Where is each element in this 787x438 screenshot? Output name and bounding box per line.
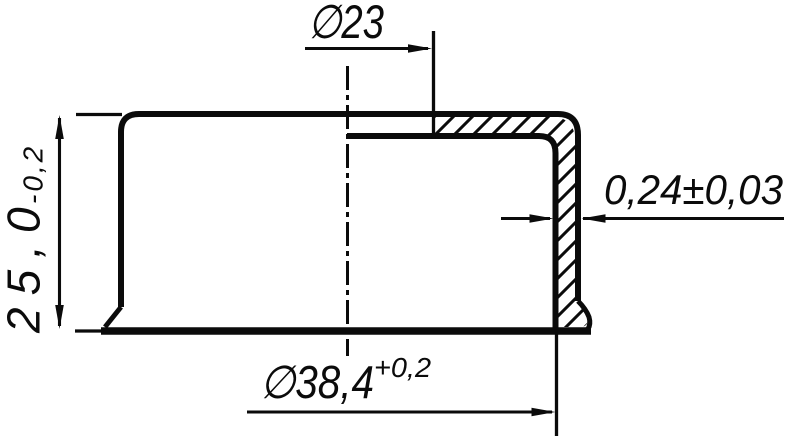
centerline dash-dot	[346, 66, 349, 356]
svg-text:0,24±0,03: 0,24±0,03	[604, 166, 783, 213]
inner top surface and inner wall	[347, 136, 556, 328]
dia38.4 dimension line with right arrow	[247, 410, 552, 413]
dia38.4 extension line	[555, 334, 558, 436]
dia23 extension line	[432, 31, 435, 139]
top outer surface with corners	[121, 114, 578, 307]
svg-text:+0,2: +0,2	[374, 352, 431, 383]
left vertical dimension line with arrows	[58, 118, 61, 326]
thin extension lines	[75, 31, 557, 436]
svg-text:∅23: ∅23	[308, 0, 384, 48]
wall thickness arrows 0.24	[501, 217, 550, 220]
left foot slant	[105, 307, 121, 327]
svg-text:∅38,4: ∅38,4	[260, 356, 374, 408]
part outline: outer profile	[105, 114, 590, 331]
dia23 dimension line with right arrow	[305, 47, 428, 50]
top-left extension of top line	[76, 113, 122, 116]
bottom-left extension of bottom line	[75, 329, 102, 332]
svg-text:-0,2: -0,2	[18, 144, 49, 204]
right foot bulge	[578, 301, 590, 331]
bottom line thick	[101, 327, 591, 335]
svg-text:25,0: 25,0	[0, 195, 50, 334]
